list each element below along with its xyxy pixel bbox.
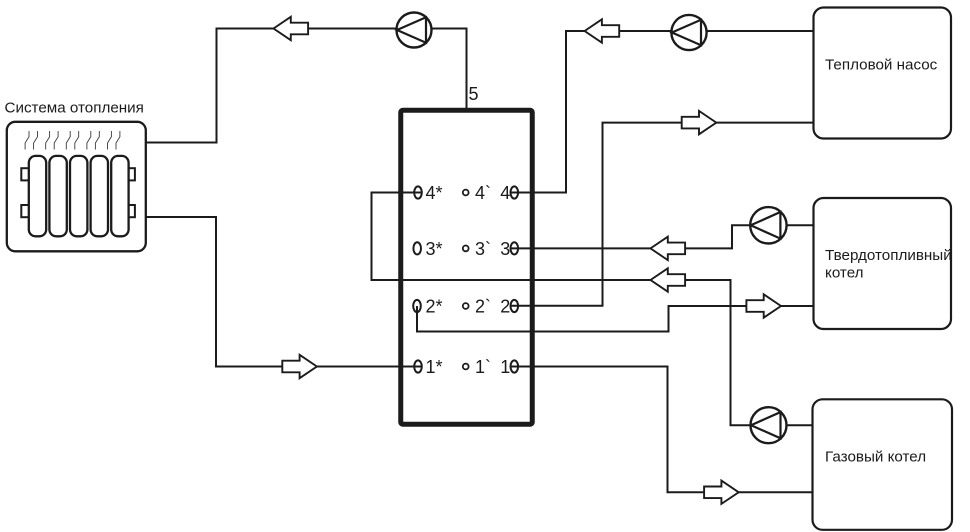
pump P1 on radiator supply bbox=[397, 13, 432, 48]
heating system radiator bbox=[7, 122, 146, 252]
solid fuel boiler bbox=[814, 198, 952, 329]
svg-text:4: 4 bbox=[500, 183, 510, 203]
heat squiggles bbox=[25, 131, 120, 150]
wire: radiator return from separator port 1* bbox=[146, 217, 423, 367]
svg-text:4*: 4* bbox=[426, 183, 443, 203]
flow arrow right, gas boiler inlet bbox=[704, 481, 739, 504]
flow arrow left, port 3 wire bbox=[651, 237, 686, 260]
heat pump unit bbox=[814, 8, 952, 139]
svg-text:Твердотопливный: Твердотопливный bbox=[825, 247, 952, 264]
wire: radiator supply to separator top bbox=[146, 29, 467, 143]
gas boiler bbox=[813, 399, 953, 530]
wire: port 3 to solid fuel boiler pump bbox=[510, 225, 814, 248]
svg-text:4`: 4` bbox=[475, 183, 491, 203]
wire: port 4 to heat pump top bbox=[510, 31, 814, 193]
svg-text:3`: 3` bbox=[475, 239, 491, 259]
flow arrow left, port 4* loop wire bbox=[651, 268, 686, 291]
port 4` bbox=[463, 190, 469, 196]
wire: port 2 to heat pump bottom bbox=[510, 123, 814, 306]
svg-text:5: 5 bbox=[469, 84, 479, 104]
radiator fin 3 bbox=[70, 156, 87, 236]
svg-text:1`: 1` bbox=[475, 357, 491, 377]
hydraulic separator (box 5) bbox=[401, 110, 533, 424]
radiator tab lower-left bbox=[21, 205, 29, 217]
radiator fin 2 bbox=[49, 156, 66, 236]
wire: port 1 to gas boiler bottom bbox=[510, 367, 814, 493]
radiator fin 4 bbox=[91, 156, 108, 236]
svg-text:Система отопления: Система отопления bbox=[5, 99, 144, 116]
svg-text:Газовый котел: Газовый котел bbox=[825, 449, 926, 466]
svg-text:2: 2 bbox=[500, 297, 510, 317]
port 2` bbox=[463, 303, 469, 309]
port 4* bbox=[414, 186, 422, 198]
port 2* bbox=[413, 300, 421, 312]
svg-text:3*: 3* bbox=[426, 239, 443, 259]
port 1* bbox=[414, 360, 422, 372]
radiator fin 1 bbox=[29, 156, 46, 236]
port 3* bbox=[413, 242, 421, 254]
flow arrow right, solid fuel boiler inlet bbox=[746, 294, 781, 317]
flow arrow right, radiator return wire bbox=[282, 355, 317, 378]
wire: port 2* to solid fuel boiler inlet bbox=[417, 306, 814, 332]
svg-text:Тепловой насос: Тепловой насос bbox=[825, 57, 938, 74]
pump P4 on gas boiler wire bbox=[751, 407, 787, 443]
flow arrow left, top-left wire bbox=[274, 17, 309, 40]
radiator tab upper-right bbox=[127, 168, 135, 180]
radiator fin 5 bbox=[111, 156, 128, 236]
port 3` bbox=[463, 246, 469, 252]
pump P2 on heat pump top wire bbox=[671, 15, 706, 50]
svg-text:1*: 1* bbox=[426, 357, 443, 377]
radiator tab lower-right bbox=[127, 205, 135, 217]
flow arrow left, heat pump top wire bbox=[585, 19, 620, 42]
port 1` bbox=[463, 364, 469, 370]
svg-text:3: 3 bbox=[500, 239, 510, 259]
svg-text:2`: 2` bbox=[475, 297, 491, 317]
flow arrow right, heat pump bottom wire bbox=[682, 111, 717, 134]
wire: port 4* loop to gas boiler pump bbox=[372, 193, 815, 426]
svg-text:2*: 2* bbox=[426, 297, 443, 317]
svg-text:котел: котел bbox=[825, 265, 864, 282]
pump P3 on solid fuel boiler wire bbox=[750, 207, 786, 243]
radiator tab upper-left bbox=[21, 168, 29, 180]
svg-text:1: 1 bbox=[500, 357, 510, 377]
